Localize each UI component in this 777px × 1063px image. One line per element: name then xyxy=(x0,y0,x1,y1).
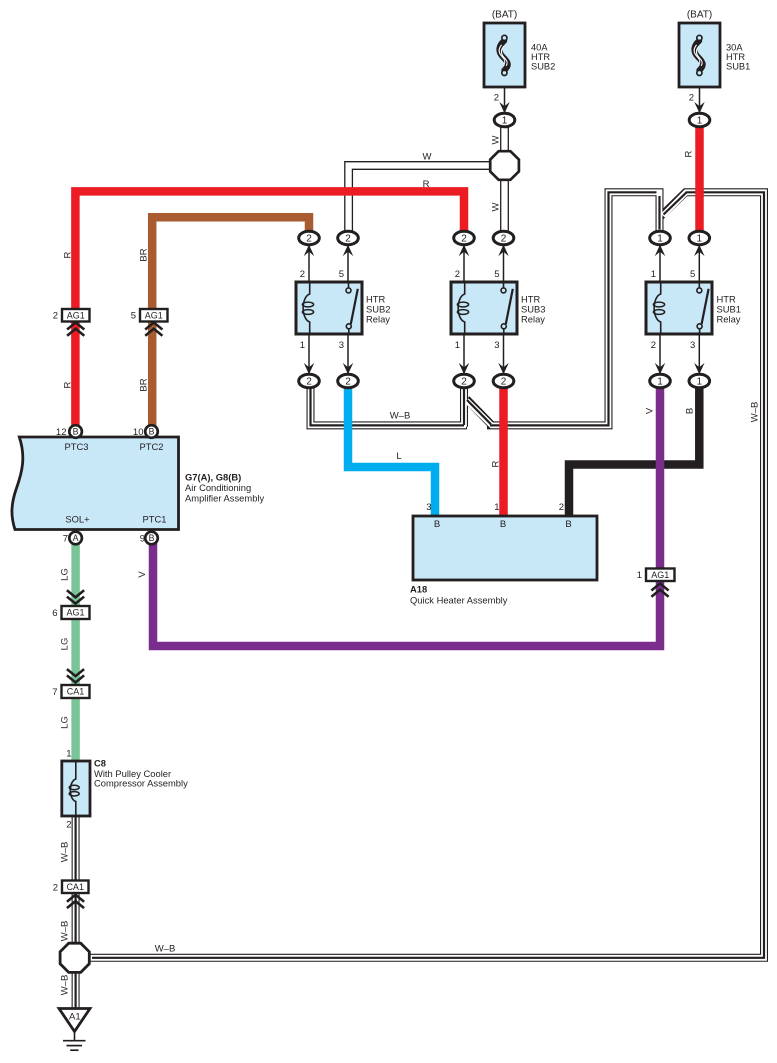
wire LG from 7(A) SOL+ to compressor C8 xyxy=(71,542,80,762)
svg-text:10: 10 xyxy=(133,427,144,438)
svg-text:5: 5 xyxy=(494,269,499,280)
chevron down above 7 CA1 xyxy=(67,669,84,676)
svg-text:PTC3: PTC3 xyxy=(65,441,89,452)
wire W-B white core: SUB3 pin 1 down xyxy=(461,388,467,427)
arrow down into SUB1 pin 3 connector xyxy=(694,363,705,374)
chevron up below 1 AG1 xyxy=(651,584,668,591)
connector oval 2 below SUB3 pin 3 xyxy=(493,374,514,388)
svg-text:2: 2 xyxy=(53,882,58,893)
svg-text:1: 1 xyxy=(300,340,305,351)
connector oval 2 above SUB2 pin 2 xyxy=(299,231,320,245)
svg-text:AG1: AG1 xyxy=(66,608,84,618)
fuse 30A HTR SUB1 xyxy=(679,23,720,87)
pin line fuse 40A to connector xyxy=(504,87,506,113)
svg-text:W–B: W–B xyxy=(390,410,411,421)
svg-text:AG1: AG1 xyxy=(67,310,85,320)
arrow down into SUB2 pin 3 connector xyxy=(343,363,354,374)
svg-text:7: 7 xyxy=(63,533,68,544)
svg-text:1: 1 xyxy=(455,340,460,351)
svg-text:6: 6 xyxy=(52,608,57,619)
svg-text:V: V xyxy=(644,407,655,414)
wire W fuse 40A to octagon junction xyxy=(500,126,509,153)
wire W-B white core: SUB2 pin 1 to bus xyxy=(311,388,467,426)
wire W-B white core: compressor to octagon xyxy=(73,814,79,945)
svg-text:SUB1: SUB1 xyxy=(726,61,750,71)
svg-text:LG: LG xyxy=(59,716,70,729)
svg-text:B: B xyxy=(500,519,506,530)
pin line relay SUB3 pin 3 xyxy=(503,334,505,375)
svg-text:LG: LG xyxy=(59,568,70,581)
connector oval 1 above SUB1 pin 5 xyxy=(689,231,710,245)
arrow up into SUB2 pin 5 connector xyxy=(343,245,354,256)
svg-text:7: 7 xyxy=(52,687,57,698)
svg-text:B: B xyxy=(434,519,440,530)
svg-text:3: 3 xyxy=(494,340,499,351)
svg-text:CA1: CA1 xyxy=(66,882,84,892)
relay HTR SUB3 xyxy=(451,282,517,334)
connector box 7 CA1 xyxy=(62,685,90,698)
svg-text:2: 2 xyxy=(461,377,467,388)
fuse 40A HTR SUB2 xyxy=(484,23,525,87)
wire B from SUB1 pin 3 to quick heater pin 2 xyxy=(569,387,699,517)
junction octagon bottom xyxy=(60,943,89,972)
wire W-B octagon to ground A1 xyxy=(72,971,80,1010)
wire W-B black stripe: SUB2 pin 1 to bus xyxy=(311,389,465,425)
A/C amplifier assembly G7/G8 xyxy=(12,437,179,530)
arrow down into SUB3 pin 3 connector xyxy=(498,363,509,374)
pin line relay SUB2 pin 2 xyxy=(308,244,310,282)
svg-text:R: R xyxy=(62,381,73,388)
svg-text:A: A xyxy=(73,533,79,543)
svg-text:PTC2: PTC2 xyxy=(140,441,164,452)
pin line relay SUB1 pin 2 xyxy=(659,334,661,375)
arrow down into SUB1 pin 2 connector xyxy=(655,363,666,374)
svg-text:5: 5 xyxy=(131,311,136,322)
chevron up below 2 AG1 xyxy=(67,323,84,330)
wire W-B branch over red to right edge, down and along bottom to octagon xyxy=(89,192,764,958)
svg-text:2: 2 xyxy=(651,340,656,351)
arrow up into SUB2 pin 2 connector xyxy=(304,245,315,256)
connector box 2 CA1 xyxy=(62,881,89,894)
svg-text:2: 2 xyxy=(300,269,305,280)
svg-text:2: 2 xyxy=(455,269,460,280)
pin line relay SUB1 pin 5 xyxy=(698,244,700,282)
wire W octagon down to SUB3 pin 5 xyxy=(500,178,509,233)
wire W-B black stripe: diagonal at bus junction xyxy=(467,400,491,424)
pin line relay SUB2 pin 5 xyxy=(347,244,349,282)
svg-text:A18: A18 xyxy=(410,583,427,594)
svg-text:1: 1 xyxy=(697,234,703,245)
wire W octagon left and down to SUB2 pin 5 xyxy=(349,166,491,234)
pin line fuse 30A to connector xyxy=(699,87,701,113)
connector oval 1 above SUB1 pin 1 xyxy=(650,231,671,245)
svg-text:2: 2 xyxy=(461,234,467,245)
wire W-B black stripe: compressor to octagon xyxy=(74,816,76,944)
svg-text:1: 1 xyxy=(651,269,656,280)
arrow down into SUB2 pin 1 connector xyxy=(304,363,315,374)
pin line relay SUB2 pin 3 xyxy=(347,334,349,375)
svg-text:Quick Heater Assembly: Quick Heater Assembly xyxy=(410,594,508,605)
wire BR from 10(B) up and right to SUB2 pin 2 xyxy=(152,217,309,429)
svg-text:12: 12 xyxy=(56,427,67,438)
wire W-B white core: branch to right edge and bottom xyxy=(89,192,764,958)
svg-text:B: B xyxy=(684,408,695,414)
wire W-B black stripe: SUB3 pin 1 vertical xyxy=(463,389,465,425)
wire R from 30A fuse to SUB1 pin 5 xyxy=(695,126,704,233)
svg-text:2: 2 xyxy=(66,819,71,830)
wire V from SUB1 pin 2 to 9(B) PTC1 xyxy=(153,387,660,646)
svg-text:LG: LG xyxy=(59,638,70,651)
connector box 2 AG1 xyxy=(62,309,90,322)
svg-text:BR: BR xyxy=(138,378,149,391)
svg-text:R: R xyxy=(423,179,430,190)
arrow up into SUB3 pin 5 connector xyxy=(498,245,509,256)
svg-text:SUB2: SUB2 xyxy=(531,61,555,71)
pin line relay SUB1 pin 3 xyxy=(698,334,700,375)
svg-text:AG1: AG1 xyxy=(651,570,669,580)
connector oval 1 below fuse 30A xyxy=(689,113,710,127)
svg-text:1: 1 xyxy=(697,377,703,388)
svg-text:(BAT): (BAT) xyxy=(492,10,517,21)
svg-text:B: B xyxy=(565,519,571,530)
wire W-B black stripe: octagon to ground xyxy=(74,972,76,1008)
svg-text:2: 2 xyxy=(53,311,58,322)
pin line relay SUB3 pin 2 xyxy=(463,244,465,282)
wire W-B from HTR SUB3 relay pin 1 down xyxy=(460,386,468,427)
pin 10 B xyxy=(145,425,158,438)
chevron up below 5 AG1 xyxy=(145,323,162,330)
connector box 1 AG1 xyxy=(646,569,675,582)
svg-text:2: 2 xyxy=(689,93,694,104)
svg-text:G7(A), G8(B): G7(A), G8(B) xyxy=(185,471,241,482)
compressor C8 xyxy=(62,761,90,816)
wire W-B black stripe: branch right edge and bottom run xyxy=(92,192,764,958)
connector oval 1 below fuse 40A xyxy=(494,113,515,127)
svg-text:2: 2 xyxy=(559,502,564,513)
svg-text:R: R xyxy=(490,460,501,467)
connector oval 1 below SUB1 pin 3 xyxy=(689,374,710,388)
svg-text:W–B: W–B xyxy=(59,921,70,942)
pin line relay SUB3 pin 5 xyxy=(503,244,505,282)
svg-text:2: 2 xyxy=(306,234,312,245)
wire W-B black stripe: bus to SUB1 corner xyxy=(490,192,657,425)
svg-text:5: 5 xyxy=(339,269,344,280)
svg-text:W–B: W–B xyxy=(59,975,70,996)
arrow down into SUB3 pin 1 connector xyxy=(459,363,470,374)
svg-text:W: W xyxy=(423,152,432,163)
svg-text:Relay: Relay xyxy=(717,314,741,325)
svg-text:3: 3 xyxy=(426,502,431,513)
connector box 5 AG1 xyxy=(140,309,168,322)
svg-text:W–B: W–B xyxy=(59,842,70,863)
wire W-B white core: bus to SUB1 pin 1 xyxy=(467,192,660,425)
svg-text:1: 1 xyxy=(657,377,663,388)
svg-text:Amplifier Assembly: Amplifier Assembly xyxy=(185,492,265,503)
svg-text:2: 2 xyxy=(345,377,351,388)
pin 12 B xyxy=(69,425,82,438)
svg-text:1: 1 xyxy=(657,234,663,245)
junction octagon top xyxy=(490,151,519,180)
svg-text:W–B: W–B xyxy=(749,402,760,423)
quick heater assembly A18 xyxy=(413,516,597,580)
arrow up into SUB1 pin 1 connector xyxy=(655,245,666,256)
pin line relay SUB3 pin 1 xyxy=(463,334,465,375)
svg-text:5: 5 xyxy=(690,269,695,280)
svg-text:R: R xyxy=(683,150,694,157)
svg-text:2: 2 xyxy=(501,234,507,245)
svg-text:2: 2 xyxy=(306,377,312,388)
svg-text:A1: A1 xyxy=(69,1011,81,1022)
connector oval 2 above SUB3 pin 5 xyxy=(493,231,514,245)
svg-text:Compressor Assembly: Compressor Assembly xyxy=(94,777,188,788)
svg-text:B: B xyxy=(73,427,79,437)
wire W-B compressor to octagon xyxy=(72,814,80,945)
connector oval 2 above SUB2 pin 5 xyxy=(338,231,359,245)
svg-text:C8: C8 xyxy=(94,757,106,768)
svg-text:W–B: W–B xyxy=(155,943,176,954)
arrow up into SUB3 pin 2 connector xyxy=(459,245,470,256)
svg-text:1: 1 xyxy=(637,570,642,581)
chevron up below 2 CA1 xyxy=(67,895,84,902)
ground A1 xyxy=(59,1009,90,1051)
svg-text:Relay: Relay xyxy=(521,314,545,325)
svg-text:2: 2 xyxy=(501,377,507,388)
svg-text:BR: BR xyxy=(138,248,149,261)
svg-text:B: B xyxy=(149,533,155,543)
svg-text:CA1: CA1 xyxy=(67,687,85,697)
pin 9 B xyxy=(145,532,158,545)
pin 7 A xyxy=(69,532,82,545)
svg-text:B: B xyxy=(149,427,155,437)
wire R from SUB3 pin 3 to quick heater pin 1 xyxy=(499,387,508,517)
arrow into connector below fuse 30A xyxy=(694,102,705,113)
connector oval 2 below SUB3 pin 1 xyxy=(454,374,475,388)
svg-text:PTC1: PTC1 xyxy=(143,513,167,524)
svg-text:Relay: Relay xyxy=(366,314,390,325)
svg-text:SOL+: SOL+ xyxy=(65,513,90,524)
svg-text:(BAT): (BAT) xyxy=(687,10,712,21)
wire W-B from HTR SUB2 relay pin 1 to bus xyxy=(311,386,468,425)
wire W-B black stripe: vertical to SUB1 pin 1 xyxy=(658,196,660,230)
svg-text:AG1: AG1 xyxy=(145,310,163,320)
connector box 6 AG1 xyxy=(62,606,90,619)
svg-text:L: L xyxy=(396,451,401,462)
svg-text:2: 2 xyxy=(345,234,351,245)
connector oval 2 below SUB2 pin 3 xyxy=(338,374,359,388)
svg-text:V: V xyxy=(137,571,148,578)
wire L from SUB2 pin 3 to quick heater pin 3 xyxy=(348,387,435,517)
chevron down above 6 AG1 xyxy=(67,590,84,597)
arrow up into SUB1 pin 5 connector xyxy=(694,245,705,256)
connector oval 1 below SUB1 pin 2 xyxy=(650,374,671,388)
relay HTR SUB2 xyxy=(296,282,362,334)
svg-text:W: W xyxy=(490,135,501,144)
svg-text:1: 1 xyxy=(494,502,499,513)
connector oval 2 above SUB3 pin 2 xyxy=(454,231,475,245)
pin line relay SUB2 pin 1 xyxy=(308,334,310,375)
wire R from 12(B) up and right to SUB3 pin 2 xyxy=(75,191,464,429)
wire W-B diagonal branch right of SUB3, up right side, down to SUB1 pin 1 xyxy=(467,192,660,425)
connector oval 2 below SUB2 pin 1 xyxy=(299,374,320,388)
arrow into connector below fuse 40A xyxy=(499,102,510,113)
svg-text:R: R xyxy=(62,251,73,258)
pin line relay SUB1 pin 1 xyxy=(659,244,661,282)
svg-text:9: 9 xyxy=(140,533,145,544)
svg-text:3: 3 xyxy=(339,340,344,351)
relay HTR SUB1 xyxy=(646,282,712,334)
wire W-B white core: octagon to ground A1 xyxy=(73,971,79,1010)
svg-text:2: 2 xyxy=(494,93,499,104)
svg-text:1: 1 xyxy=(697,116,703,127)
svg-text:W: W xyxy=(490,202,501,211)
svg-text:3: 3 xyxy=(690,340,695,351)
svg-text:1: 1 xyxy=(502,116,508,127)
svg-text:1: 1 xyxy=(66,748,71,759)
